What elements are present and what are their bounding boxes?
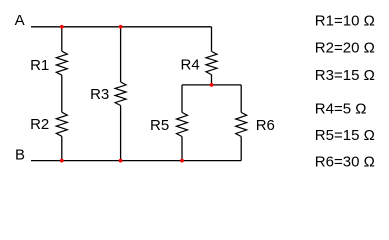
wire branch R6 upper <box>240 85 242 113</box>
wire mid rail parallel top <box>182 84 241 86</box>
wire branch R5 upper <box>181 85 183 113</box>
wire branch R1-R2 middle <box>61 75 63 112</box>
wire branch R3 lower <box>120 106 122 161</box>
junction bottom rail at R5 branch <box>180 159 184 163</box>
resistor R1 <box>30 51 67 75</box>
value label R5 <box>315 127 375 144</box>
junction bottom rail at R3 branch <box>119 159 123 163</box>
junction mid rail at R4 <box>210 83 214 87</box>
value label R3 <box>315 67 375 84</box>
svg-text:R1: R1 <box>30 57 49 74</box>
svg-text:R6=30 Ω: R6=30 Ω <box>315 153 375 170</box>
value label R2 <box>315 40 375 57</box>
value label R6 <box>315 153 375 170</box>
resistor R4 <box>181 51 218 74</box>
svg-text:R2=20 Ω: R2=20 Ω <box>315 40 375 57</box>
value label R1 <box>315 13 375 30</box>
svg-text:R2: R2 <box>30 116 49 133</box>
svg-text:R6: R6 <box>256 117 275 134</box>
svg-text:R1=10 Ω: R1=10 Ω <box>315 13 375 30</box>
node A <box>15 12 25 29</box>
svg-text:R4=5 Ω: R4=5 Ω <box>315 100 367 117</box>
wire branch R1-R2 lower <box>61 136 63 160</box>
wire branch R4 upper <box>211 27 213 52</box>
junction top rail at R3 branch <box>119 25 123 29</box>
svg-text:R4: R4 <box>181 57 200 74</box>
svg-text:A: A <box>15 12 25 29</box>
wire branch R3 upper <box>120 27 122 82</box>
wire bottom rail B <box>31 160 241 162</box>
svg-text:R5=15 Ω: R5=15 Ω <box>315 127 375 144</box>
value label R4 <box>315 100 367 117</box>
junction top rail at R1 branch <box>60 25 64 29</box>
node B <box>15 147 25 164</box>
resistor R2 <box>30 112 67 136</box>
svg-text:B: B <box>15 147 25 164</box>
svg-text:R3: R3 <box>90 86 109 103</box>
junction bottom rail at R1 branch <box>60 159 64 163</box>
wire branch R4 lower <box>211 75 213 85</box>
resistor R6 <box>236 112 275 136</box>
svg-text:R5: R5 <box>150 117 169 134</box>
wire top rail A <box>31 26 212 28</box>
wire branch R1-R2 upper <box>61 27 63 51</box>
resistor R3 <box>90 82 126 106</box>
resistor R5 <box>150 112 188 136</box>
svg-text:R3=15 Ω: R3=15 Ω <box>315 67 375 84</box>
wire branch R6 lower <box>240 137 242 161</box>
wire branch R5 lower <box>181 137 183 161</box>
